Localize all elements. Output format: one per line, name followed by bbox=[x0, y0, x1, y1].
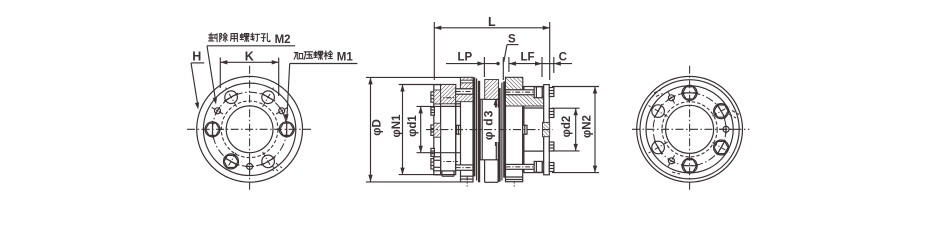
svg-text:φ d3: φ d3 bbox=[482, 109, 496, 140]
svg-text:φd1: φd1 bbox=[407, 115, 419, 137]
svg-text:φN1: φN1 bbox=[391, 114, 403, 138]
svg-text:φD: φD bbox=[371, 119, 383, 136]
svg-text:φN2: φN2 bbox=[582, 115, 594, 138]
svg-text:M1: M1 bbox=[337, 51, 354, 63]
svg-text:L: L bbox=[488, 15, 496, 29]
svg-text:H: H bbox=[192, 50, 201, 64]
svg-text:K: K bbox=[245, 49, 254, 63]
svg-text:C: C bbox=[559, 51, 567, 63]
svg-text:φd2: φd2 bbox=[561, 116, 573, 138]
svg-text:LP: LP bbox=[458, 51, 473, 63]
svg-text:LF: LF bbox=[521, 51, 535, 63]
svg-text:S: S bbox=[508, 34, 516, 46]
svg-text:M2: M2 bbox=[275, 34, 291, 46]
